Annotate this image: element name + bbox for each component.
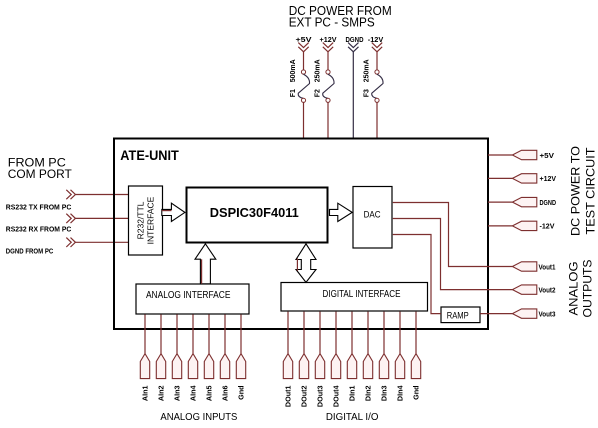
svg-text:DAC: DAC [364, 210, 381, 221]
net label AIn5 [205, 386, 214, 402]
wire digital interface to DIn4 [399, 312, 401, 354]
svg-text:DIn4: DIn4 [396, 386, 405, 402]
wire F1 to ATE-UNIT [303, 102, 305, 138]
svg-text:AIn1: AIn1 [141, 386, 150, 402]
terminal Gnd (analog input) [236, 354, 245, 379]
svg-text:Vout1: Vout1 [539, 264, 556, 271]
wire analog interface to DSPIC [201, 259, 203, 284]
wire DGND top to ATE-UNIT [352, 52, 354, 138]
block analog interface [136, 284, 249, 314]
svg-text:Gnd: Gnd [237, 386, 246, 400]
wire digital interface to DIn2 [367, 312, 369, 354]
wire ATE-UNIT to DGND terminal [488, 201, 512, 203]
wire analog interface to AIn6 [224, 314, 226, 353]
input arrow DGND [348, 43, 358, 52]
svg-text:RS232 TX FROM PC: RS232 TX FROM PC [6, 204, 72, 211]
net label DOut2 [300, 385, 309, 407]
svg-text:DIn1: DIn1 [348, 386, 357, 402]
svg-text:F3: F3 [363, 89, 370, 97]
terminal DOut4 (digital I/O) [331, 354, 340, 379]
net label AIn6 [221, 386, 230, 402]
input arrow RS232 RX [66, 214, 75, 223]
wire DGND from PC [75, 241, 128, 243]
svg-text:AIn6: AIn6 [221, 386, 230, 402]
terminal Vout1 [512, 262, 536, 271]
svg-text:+5V: +5V [540, 153, 555, 160]
svg-text:R232/TTL: R232/TTL [136, 201, 146, 239]
svg-text:DOut2: DOut2 [300, 385, 309, 407]
svg-text:DIn3: DIn3 [380, 386, 389, 402]
svg-text:AIn2: AIn2 [157, 386, 166, 402]
svg-text:ANALOG INTERFACE: ANALOG INTERFACE [146, 290, 231, 301]
label F1 500mA [290, 59, 297, 97]
svg-text:DSPIC30F4011: DSPIC30F4011 [210, 205, 299, 220]
net label DGND (right) [540, 200, 557, 207]
terminal Vout3 [512, 309, 536, 318]
block arrow DSPIC to DAC [330, 203, 353, 221]
svg-text:DOut4: DOut4 [332, 385, 341, 407]
svg-text:AIn3: AIn3 [173, 386, 182, 402]
svg-text:AIn5: AIn5 [205, 386, 214, 402]
terminal DOut2 (digital I/O) [299, 354, 308, 379]
net label DOut3 [316, 385, 325, 407]
terminal DIn3 (digital I/O) [379, 354, 388, 379]
svg-text:DOut3: DOut3 [316, 385, 325, 407]
net label +12V (top) [320, 35, 337, 44]
net label -12V (top) [368, 35, 384, 44]
net label Gnd [412, 386, 421, 400]
wire RS232 TX from PC [75, 194, 128, 196]
net label -12V (right) [540, 224, 555, 231]
svg-text:DGND FROM PC: DGND FROM PC [6, 248, 54, 255]
fuse F2 [323, 70, 334, 103]
wire analog interface to AIn2 [160, 314, 162, 353]
net label AIn3 [173, 386, 182, 402]
net label +12V (right) [540, 176, 557, 183]
heading "FROM PC COM PORT" [8, 156, 73, 182]
terminal AIn3 (analog input) [172, 354, 181, 379]
block U2 RS232/TTL interface [129, 186, 163, 255]
wire digital interface to DOut2 [303, 312, 305, 354]
svg-text:DIGITAL I/O: DIGITAL I/O [326, 411, 379, 423]
wire F3 to ATE-UNIT [376, 102, 378, 138]
svg-text:+12V: +12V [320, 35, 337, 44]
svg-text:Gnd: Gnd [412, 386, 421, 400]
block arrow RS232/TTL to DSPIC [162, 203, 185, 221]
wire digital interface to DOut4 [335, 312, 337, 354]
terminal DIn2 (digital I/O) [363, 354, 372, 379]
input arrow +12V [323, 43, 333, 52]
svg-text:DC POWER TO: DC POWER TO [569, 146, 583, 236]
block arrow analog interface to DSPIC [195, 244, 216, 284]
terminal Vout2 [512, 285, 536, 294]
svg-text:ATE-UNIT: ATE-UNIT [120, 148, 179, 163]
net label DIn4 [396, 386, 405, 402]
svg-text:-12V: -12V [368, 35, 384, 44]
net label Vout2 [539, 287, 556, 294]
net label AIn2 [157, 386, 166, 402]
net label +5V (top) [296, 35, 312, 44]
caption "ANALOG OUTPUTS" [567, 260, 595, 318]
svg-text:EXT PC - SMPS: EXT PC - SMPS [289, 15, 375, 29]
block U3 DAC [353, 187, 392, 249]
net label Vout3 [539, 311, 556, 318]
terminal DIn1 (digital I/O) [347, 354, 356, 379]
wire digital interface to DOut1 [287, 312, 289, 354]
net label DIn3 [380, 386, 389, 402]
caption "DIGITAL I/O" [326, 411, 379, 423]
wire digital interface to DOut3 [319, 312, 321, 354]
net label AIn4 [189, 386, 198, 402]
wire ATE-UNIT to +12V terminal [488, 177, 512, 179]
svg-text:DIGITAL INTERFACE: DIGITAL INTERFACE [323, 289, 401, 300]
terminal DGND (right) [512, 197, 536, 206]
label DGND FROM PC [6, 248, 54, 255]
block double-arrow DSPIC to digital interface [296, 244, 316, 282]
block U1 DSPIC30F4011 [187, 188, 328, 243]
net label DGND (top) [346, 35, 364, 44]
terminal AIn6 (analog input) [220, 354, 229, 379]
label F3 250mA [363, 59, 370, 97]
block digital interface [281, 283, 428, 312]
wire DAC out1 to Vout1 [393, 203, 513, 267]
caption "ANALOG INPUTS" [160, 411, 237, 423]
wire DSPIC to digital interface [296, 259, 298, 271]
terminal AIn1 (analog input) [140, 354, 149, 379]
terminal DOut1 (digital I/O) [283, 354, 292, 379]
label ATE-UNIT [120, 148, 179, 163]
net label AIn1 [141, 386, 150, 402]
wire digital interface to DIn1 [351, 312, 353, 354]
svg-text:+5V: +5V [296, 35, 312, 44]
block U4 RAMP [441, 307, 480, 323]
svg-text:AIn4: AIn4 [189, 386, 198, 402]
svg-text:F1: F1 [290, 89, 297, 97]
svg-text:DGND: DGND [540, 200, 557, 207]
wire analog interface to AIn3 [176, 314, 178, 353]
svg-text:RS232 RX FROM PC: RS232 RX FROM PC [6, 226, 72, 233]
input arrow +5V [298, 43, 308, 52]
input arrow DGND from PC [66, 238, 75, 247]
label RS232 RX FROM PC [6, 226, 72, 233]
wire -12V top to fuse F3 [376, 52, 378, 70]
terminal +12V (right) [512, 174, 536, 183]
svg-text:500mA: 500mA [290, 59, 297, 82]
wire RAMP to Vout3 [480, 313, 512, 315]
wire analog interface to Gnd [240, 314, 242, 353]
wire analog interface to AIn1 [144, 314, 146, 353]
net label Vout1 [539, 264, 556, 271]
terminal +5V (right) [512, 150, 536, 159]
wire RS232/TTL to arrow [162, 210, 172, 212]
svg-text:Vout3: Vout3 [539, 311, 556, 318]
net label DIn2 [364, 386, 373, 402]
wire digital interface to Gnd [415, 312, 417, 354]
svg-text:ANALOG INPUTS: ANALOG INPUTS [160, 411, 237, 423]
svg-text:250mA: 250mA [314, 59, 321, 82]
wire digital interface to DIn3 [383, 312, 385, 354]
wire +12V top to fuse F2 [327, 52, 329, 70]
heading "DC POWER FROM EXT PC - SMPS" [289, 4, 392, 30]
ATE-UNIT enclosure box [114, 139, 488, 330]
terminal DIn4 (digital I/O) [395, 354, 404, 379]
fuse F1 [298, 70, 309, 103]
svg-text:OUTPUTS: OUTPUTS [581, 260, 595, 318]
net label DIn1 [348, 386, 357, 402]
wire RS232 RX from PC [75, 217, 128, 219]
wire analog interface to AIn5 [208, 314, 210, 353]
net label Gnd [237, 386, 246, 400]
svg-text:DIn2: DIn2 [364, 386, 373, 402]
terminal AIn5 (analog input) [204, 354, 213, 379]
input arrow RS232 TX [66, 190, 75, 199]
svg-text:-12V: -12V [540, 224, 555, 231]
terminal AIn2 (analog input) [156, 354, 165, 379]
input arrow -12V [372, 43, 382, 52]
svg-text:ANALOG: ANALOG [567, 262, 581, 316]
label F2 250mA [314, 59, 321, 97]
svg-text:COM PORT: COM PORT [8, 167, 73, 181]
wire analog interface to AIn4 [192, 314, 194, 353]
svg-text:TEST CIRCUIT: TEST CIRCUIT [584, 147, 598, 235]
svg-text:Vout2: Vout2 [539, 287, 556, 294]
net label DOut4 [332, 385, 341, 407]
fuse F3 [372, 70, 383, 103]
wire ATE-UNIT to +5V terminal [488, 154, 512, 156]
wire DAC out2 to Vout2 [393, 219, 513, 290]
wire +5V top to fuse F1 [303, 52, 305, 70]
svg-text:DOut1: DOut1 [284, 385, 293, 407]
terminal -12V (right) [512, 221, 536, 230]
svg-text:250mA: 250mA [363, 59, 370, 82]
net label DOut1 [284, 385, 293, 407]
svg-text:INTERFACE: INTERFACE [146, 196, 156, 244]
net label +5V (right) [540, 153, 555, 160]
terminal AIn4 (analog input) [188, 354, 197, 379]
svg-text:F2: F2 [314, 89, 321, 97]
terminal Gnd (digital I/O) [411, 354, 420, 379]
label RS232 TX FROM PC [6, 204, 72, 211]
svg-text:+12V: +12V [540, 176, 557, 183]
wire F2 to ATE-UNIT [327, 102, 329, 138]
terminal DOut3 (digital I/O) [315, 354, 324, 379]
wire DAC out3 to RAMP [393, 235, 441, 314]
svg-text:RAMP: RAMP [447, 311, 469, 322]
wire ATE-UNIT to -12V terminal [488, 225, 512, 227]
caption "DC POWER TO TEST CIRCUIT" [569, 146, 598, 236]
